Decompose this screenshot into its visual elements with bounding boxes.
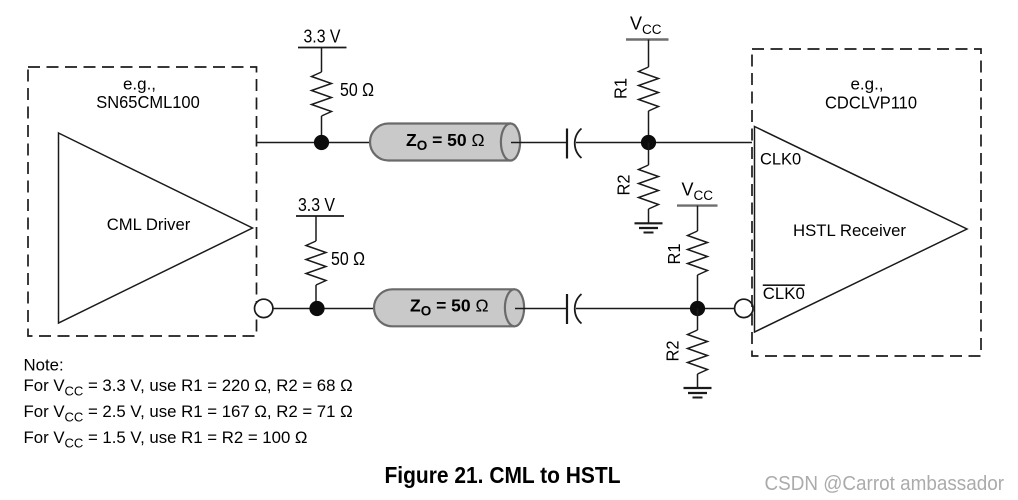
wire: R1 to junction (divider 2)	[697, 275, 699, 309]
svg-text:SN65CML100: SN65CML100	[96, 92, 200, 112]
wire: tline2 to capacitor C2	[515, 308, 567, 310]
node: junction dot divider 2	[690, 301, 705, 316]
pin label CLK0 inverted with overline	[763, 284, 805, 303]
op-amp U2 HSTL Receiver triangle	[755, 127, 968, 333]
wire: Vcc bar to R1 (divider 1)	[648, 40, 650, 68]
capacitor C1 (series coupling)	[567, 129, 582, 159]
driver block label "e.g., SN65CML100"	[96, 75, 200, 113]
ground (divider 1)	[635, 223, 663, 232]
resistor R1 (divider 2)	[688, 231, 708, 275]
wire: resistor to junction (row2)	[315, 285, 317, 309]
inversion bubble at driver output (open circle)	[255, 299, 273, 317]
wire: junction to R2 (divider 1)	[648, 143, 650, 166]
wire: Vcc bar to R1 (divider 2)	[697, 206, 699, 231]
inversion bubble at receiver input (open circle)	[735, 299, 753, 317]
svg-text:50 Ω: 50 Ω	[331, 249, 365, 269]
wire: R2 to ground (divider 2)	[697, 374, 699, 388]
svg-text:CSDN @Carrot ambassador: CSDN @Carrot ambassador	[765, 473, 1005, 495]
wire: R1 to junction (divider 1)	[648, 111, 650, 143]
svg-text:Figure 21. CML to HSTL: Figure 21. CML to HSTL	[385, 462, 621, 488]
svg-text:e.g.,: e.g.,	[123, 75, 156, 94]
transmission line 2 Z0 = 50 ohm	[374, 289, 524, 326]
resistor R2 (divider 1)	[639, 165, 659, 209]
svg-text:CLK0: CLK0	[760, 149, 801, 168]
receiver block dashed box	[752, 49, 981, 356]
wire: junction to R2 (divider 2)	[697, 309, 699, 331]
svg-text:R2: R2	[614, 175, 634, 196]
power Vcc supply (divider 2)	[677, 180, 718, 206]
wire: 3.3V bar to resistor (row1)	[321, 48, 323, 73]
resistor 50 ohm termination (row2)	[306, 241, 326, 285]
power 3.3V supply (row1)	[298, 27, 347, 48]
svg-text:R2: R2	[663, 341, 683, 362]
svg-text:3.3 V: 3.3 V	[298, 195, 335, 215]
svg-text:3.3 V: 3.3 V	[304, 27, 341, 47]
resistor R1 (divider 1)	[639, 67, 659, 111]
wire row2: driver inverted output to transmission line 2	[273, 308, 375, 310]
wire: resistor to junction (row1)	[321, 116, 323, 143]
wire: C2 to receiver input CLK0bar	[576, 308, 735, 310]
node: junction dot row2	[309, 301, 324, 316]
svg-text:50 Ω: 50 Ω	[340, 80, 374, 100]
ground (divider 2)	[684, 388, 712, 398]
power Vcc supply (divider 1)	[626, 14, 669, 40]
receiver block label "e.g., CDCLVP110"	[825, 75, 917, 113]
svg-text:R1: R1	[664, 244, 684, 265]
transmission line 1 Z0 = 50 ohm	[370, 124, 520, 161]
svg-text:HSTL Receiver: HSTL Receiver	[793, 221, 906, 240]
svg-text:CDCLVP110: CDCLVP110	[825, 93, 917, 113]
capacitor C2 (series coupling)	[567, 294, 582, 324]
wire: C1 to receiver input CLK0	[576, 142, 752, 144]
resistor R2 (divider 2)	[688, 330, 708, 374]
svg-text:Note:: Note:	[24, 356, 64, 375]
wire: 3.3V bar to resistor (row2)	[315, 216, 317, 241]
node: junction dot divider 1	[641, 135, 656, 150]
svg-text:CML Driver: CML Driver	[107, 215, 191, 234]
power 3.3V supply (row2)	[296, 195, 344, 216]
driver block dashed box	[28, 67, 257, 336]
svg-text:CLK0: CLK0	[763, 284, 805, 303]
note text block	[24, 356, 353, 451]
svg-text:e.g.,: e.g.,	[850, 75, 883, 94]
svg-text:R1: R1	[611, 78, 631, 99]
node: junction dot row1	[314, 135, 329, 150]
resistor 50 ohm termination (row1)	[312, 72, 332, 116]
op-amp U1 CML Driver triangle	[59, 133, 253, 323]
wire: R2 to ground (divider 1)	[648, 209, 650, 223]
wire row1: driver output to transmission line 1	[257, 142, 371, 144]
wire: tline1 to capacitor C1	[511, 142, 567, 144]
